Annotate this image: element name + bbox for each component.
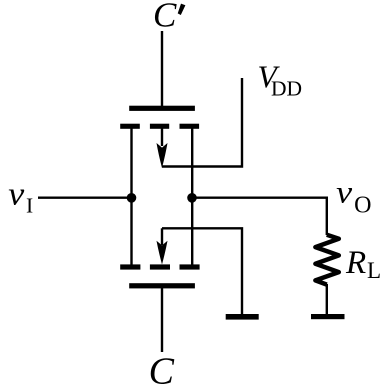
svg-text:C: C — [149, 351, 175, 384]
svg-text:R: R — [345, 245, 366, 281]
svg-text:C: C — [153, 0, 177, 34]
svg-text:v: v — [8, 177, 24, 213]
svg-text:O: O — [354, 192, 371, 218]
svg-text:v: v — [336, 174, 353, 210]
svg-text:DD: DD — [271, 76, 302, 100]
svg-text:I: I — [26, 194, 33, 218]
svg-text:L: L — [367, 258, 381, 283]
